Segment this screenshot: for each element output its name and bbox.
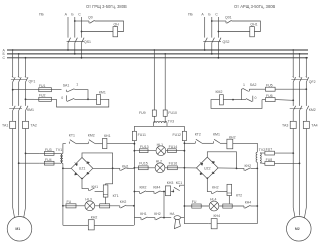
wire: right line C KM2 to TA4 bbox=[305, 111, 307, 122]
wire KH2 row to TV2 secondary bbox=[233, 143, 257, 152]
svg-text:Q0: Q0 bbox=[88, 15, 93, 19]
node bus A middle drop bbox=[153, 49, 155, 51]
right control row 1 wire bbox=[275, 88, 306, 90]
wire KH3 to contact KC1 bbox=[171, 191, 174, 193]
row A wire bbox=[134, 191, 139, 193]
node right line A to bus A bbox=[204, 49, 206, 51]
svg-text:КН2: КН2 bbox=[229, 135, 236, 139]
svg-text:ТV3: ТV3 bbox=[168, 119, 174, 123]
node on right line B for Q01 branch bbox=[211, 20, 213, 22]
wire: right line C TA4 down to motor bbox=[305, 129, 307, 218]
svg-text:От ГРЩ 3-50Гц, 380В: От ГРЩ 3-50Гц, 380В bbox=[86, 4, 127, 9]
svg-text:С: С bbox=[215, 13, 218, 17]
node right line C to bus C bbox=[218, 57, 220, 59]
wire FU9 down bbox=[153, 116, 155, 123]
svg-text:А: А bbox=[65, 13, 68, 17]
svg-text:КН2: КН2 bbox=[91, 216, 98, 220]
wire: line B QF1 to KM1 bbox=[18, 82, 20, 106]
svg-text:КМ1: КМ1 bbox=[99, 90, 106, 94]
wire KT2 bottom drop bbox=[228, 196, 230, 204]
svg-text:SA1: SA1 bbox=[63, 84, 70, 88]
svg-text:КН3: КН3 bbox=[167, 181, 174, 185]
svg-text:FU13: FU13 bbox=[140, 145, 149, 149]
node rail left row A bbox=[134, 191, 136, 193]
svg-text:FU2: FU2 bbox=[39, 93, 46, 97]
wire KM1 coil return loop bbox=[57, 99, 109, 107]
svg-text:ТА2: ТА2 bbox=[31, 124, 37, 128]
right rail bbox=[183, 141, 185, 224]
wire SA1 lower to junction bbox=[74, 98, 96, 100]
svg-text:КН1: КН1 bbox=[140, 212, 147, 216]
fuse FU18 bbox=[95, 205, 120, 207]
node HL4 row left bbox=[184, 205, 186, 207]
svg-text:UZ1: UZ1 bbox=[79, 167, 86, 171]
svg-text:ТV2: ТV2 bbox=[259, 148, 265, 152]
svg-text:ТА1: ТА1 bbox=[2, 124, 8, 128]
svg-text:FU14: FU14 bbox=[169, 145, 178, 149]
node control junction bbox=[87, 98, 89, 100]
wire FU10 down bbox=[164, 116, 166, 123]
wire QH return to line C bbox=[82, 31, 114, 33]
wire TV2 primary bottom to FU8 bbox=[260, 162, 265, 165]
wire middle drop A bbox=[153, 50, 155, 110]
node right line B to bus B bbox=[211, 53, 213, 55]
motor M2 bbox=[287, 217, 312, 242]
svg-text:1: 1 bbox=[76, 83, 78, 87]
control row 2: wire line C to FU2 bbox=[26, 98, 35, 100]
wire bottom return left ladder bbox=[63, 224, 86, 226]
svg-text:НА: НА bbox=[170, 212, 176, 216]
svg-text:ПБ: ПБ bbox=[39, 13, 45, 17]
diode VD5 bbox=[200, 162, 203, 166]
wire TV2 secondary down rail bbox=[256, 162, 258, 224]
wire: line A KM1 to TA1 bbox=[12, 111, 14, 122]
diode VD6 bbox=[212, 161, 215, 163]
wire: feed line C right bbox=[217, 17, 219, 38]
wire bridge top corner link bbox=[82, 153, 113, 168]
svg-text:ПБ: ПБ bbox=[188, 13, 194, 17]
diode VD3 bbox=[75, 173, 78, 176]
wire SA1 to junction drop bbox=[74, 90, 88, 100]
wire: line C KM1 to TA2 bbox=[25, 111, 27, 122]
wire: feed line A right bbox=[204, 17, 206, 38]
svg-text:QS2: QS2 bbox=[223, 40, 230, 44]
svg-text:Б: Б bbox=[71, 13, 74, 17]
wire bridge2 top corner link bbox=[207, 152, 236, 169]
node bus C right drop bbox=[305, 57, 307, 59]
diode VD7 bbox=[200, 172, 203, 175]
svg-text:А: А bbox=[201, 13, 204, 17]
wire from Q01 to relay QH1 bbox=[232, 21, 261, 32]
svg-text:КН1: КН1 bbox=[92, 185, 99, 189]
svg-text:КМ2: КМ2 bbox=[88, 134, 95, 138]
node row B junction bbox=[163, 217, 165, 219]
wire: feed line B left bbox=[74, 17, 76, 38]
QS1 tie bar bbox=[67, 40, 85, 42]
node bus A left drop bbox=[12, 49, 14, 51]
bus bar B bbox=[7, 53, 308, 55]
fuse FU20 bbox=[219, 205, 244, 207]
svg-text:КМ4: КМ4 bbox=[153, 186, 160, 190]
bus bar A bbox=[7, 49, 308, 51]
diode VD8 bbox=[212, 172, 215, 174]
node line B tap FU4 bbox=[18, 162, 20, 164]
wire to bridge UZ1 left corner bbox=[63, 167, 71, 169]
svg-text:0: 0 bbox=[255, 96, 257, 100]
motor M1 bbox=[7, 217, 32, 242]
wire row A drop column bbox=[163, 192, 165, 218]
svg-text:КС1: КС1 bbox=[176, 181, 183, 185]
svg-text:КН2: КН2 bbox=[245, 164, 252, 168]
svg-text:QН1: QН1 bbox=[250, 23, 257, 27]
svg-text:КТ1: КТ1 bbox=[69, 134, 75, 138]
wire from Q0 to relay QH bbox=[95, 21, 124, 32]
svg-text:КМ2: КМ2 bbox=[216, 90, 223, 94]
wire middle drop B bbox=[164, 54, 166, 110]
svg-text:SA2: SA2 bbox=[250, 83, 257, 87]
wire junction to KM2 coil bbox=[223, 99, 233, 101]
wire to switch Q01 bbox=[212, 20, 226, 22]
node bus B right drop bbox=[299, 53, 301, 55]
svg-text:QS1: QS1 bbox=[84, 40, 91, 44]
svg-text:FU10: FU10 bbox=[168, 111, 177, 115]
svg-text:М1: М1 bbox=[15, 227, 20, 231]
svg-text:0: 0 bbox=[61, 96, 63, 100]
QS2 tie bar bbox=[203, 40, 221, 42]
diode VD2 bbox=[86, 162, 89, 164]
node on right line C for QH1 return bbox=[218, 31, 220, 33]
svg-text:КМ2: КМ2 bbox=[140, 186, 147, 190]
svg-text:FU5: FU5 bbox=[266, 83, 273, 87]
svg-text:КН2: КН2 bbox=[212, 186, 219, 190]
wire bridge bottom corner down bbox=[82, 179, 89, 189]
svg-text:FU9: FU9 bbox=[139, 111, 146, 115]
wire KH4 to TV2 rail bottom bbox=[217, 223, 257, 225]
node junction column bbox=[112, 167, 114, 169]
svg-text:QН: QН bbox=[114, 23, 120, 27]
wire rail to bridge UZ2 bbox=[184, 167, 196, 169]
node row A junction bbox=[163, 191, 165, 193]
svg-text:КН1: КН1 bbox=[104, 134, 111, 138]
wire: feed line B right bbox=[211, 17, 213, 38]
svg-text:КН4: КН4 bbox=[245, 200, 252, 204]
wire: line C QF1 to KM1 bbox=[25, 82, 27, 106]
wire KH2 to left rail bottom bbox=[94, 224, 134, 226]
transformer TV1 secondary winding bbox=[62, 153, 63, 163]
wire: line A QF1 to KM1 bbox=[12, 82, 14, 106]
svg-text:FU: FU bbox=[67, 200, 72, 204]
svg-text:Q01: Q01 bbox=[225, 15, 232, 19]
node control tap right line A bbox=[292, 99, 294, 101]
node HL3 row left bbox=[62, 205, 64, 207]
svg-text:FU15: FU15 bbox=[139, 161, 148, 165]
svg-text:ТА3: ТА3 bbox=[282, 124, 288, 128]
svg-text:FU: FU bbox=[192, 200, 197, 204]
svg-text:КТ2: КТ2 bbox=[195, 133, 201, 137]
node rail left row KH1 bbox=[134, 143, 136, 145]
svg-text:М2: М2 bbox=[295, 227, 300, 231]
svg-text:КН4: КН4 bbox=[214, 214, 221, 218]
right rail upper bbox=[183, 126, 185, 131]
wire: line B down to motor zone bbox=[18, 111, 20, 216]
node control tap on line A bbox=[12, 89, 14, 91]
svg-text:FU1: FU1 bbox=[39, 84, 46, 88]
svg-text:QF2: QF2 bbox=[309, 80, 316, 84]
node rail left HL1 bbox=[134, 150, 136, 152]
svg-text:1: 1 bbox=[243, 83, 245, 87]
wire to switch Q0 bbox=[75, 20, 89, 22]
svg-text:ТА4: ТА4 bbox=[311, 124, 317, 128]
diode VD4 bbox=[86, 172, 89, 174]
node bus C left drop bbox=[25, 57, 27, 59]
wire SA2 to junction drop bbox=[241, 89, 244, 99]
wire: right line A TA3 down to motor bbox=[293, 129, 295, 218]
wire: line A TA1 down to motor bbox=[13, 129, 15, 218]
node right line B tap FU8 bbox=[299, 163, 301, 165]
svg-text:HL1: HL1 bbox=[157, 143, 163, 147]
node junction column right bbox=[236, 168, 238, 170]
wire: feed line A left bbox=[67, 17, 69, 38]
node on line C for QH return bbox=[81, 31, 83, 33]
node right control junction bbox=[232, 99, 234, 101]
node control tap right line C bbox=[305, 88, 307, 90]
node rail right HL1 bbox=[184, 150, 186, 152]
node HL4 row right bbox=[256, 205, 258, 207]
wire: right line A QF2 to KM2 bbox=[292, 82, 294, 106]
wire: right power line A down bbox=[292, 50, 294, 77]
wire: feed line C left bbox=[81, 17, 83, 38]
wire ladder top bar bbox=[134, 125, 184, 127]
node bus B left drop bbox=[18, 53, 20, 55]
svg-text:QF1: QF1 bbox=[29, 80, 36, 84]
wire: right line B QF2 to KM2 bbox=[299, 82, 301, 106]
svg-text:КМ1: КМ1 bbox=[213, 133, 220, 137]
node right line A tap FU7 bbox=[292, 152, 294, 154]
svg-text:Б: Б bbox=[208, 13, 211, 17]
svg-text:КТ1: КТ1 bbox=[113, 194, 119, 198]
HL1 row left wire bbox=[134, 150, 156, 152]
wire: right line C QF2 to KM2 bbox=[305, 82, 307, 106]
wire: line C TA2 down to motor bbox=[24, 129, 26, 218]
control row 1: wire from line A to FU1 bbox=[13, 89, 34, 91]
wire bottom return right ladder bbox=[184, 223, 208, 225]
svg-text:КМ1: КМ1 bbox=[27, 108, 34, 112]
wire: left power line C down bbox=[25, 58, 27, 78]
row B wire from left rail bbox=[134, 217, 141, 219]
HL2 row left wire bbox=[134, 167, 136, 169]
node TV1 secondary to bridge bbox=[62, 167, 64, 169]
node on line B for Q0 branch bbox=[74, 20, 76, 22]
svg-text:КТ2: КТ2 bbox=[236, 193, 242, 197]
svg-text:КМ2: КМ2 bbox=[309, 108, 316, 112]
wire KT1 bottom drop bbox=[105, 197, 107, 204]
diode VD1 bbox=[75, 162, 78, 166]
svg-text:С: С bbox=[78, 13, 81, 17]
transformer TV2 primary winding bbox=[260, 153, 261, 163]
wire TV2 primary top to FU7 bbox=[260, 152, 265, 154]
node line B to bus B bbox=[74, 53, 76, 55]
wire: right line A KM2 to TA3 bbox=[292, 111, 294, 122]
wire: left power line A down bbox=[12, 50, 14, 77]
wire TV1 secondary top to contact row bbox=[63, 144, 66, 154]
wire bell to right rail bbox=[181, 217, 185, 219]
wire: right power line C down bbox=[305, 58, 307, 78]
svg-text:От АРЩ 3-50Гц, 380В: От АРЩ 3-50Гц, 380В bbox=[234, 4, 275, 9]
wire: right power line B down bbox=[299, 54, 301, 77]
svg-text:КН2: КН2 bbox=[154, 212, 161, 216]
wire: left power line B down bbox=[18, 54, 20, 77]
svg-text:FU12: FU12 bbox=[172, 133, 181, 137]
wire TV1 secondary bottom rail bbox=[62, 163, 64, 225]
node line C tap FU3 bbox=[25, 153, 27, 155]
node rail right HL2/bridge2 bbox=[184, 167, 186, 169]
node bus B middle drop bbox=[164, 53, 166, 55]
svg-text:FU16: FU16 bbox=[169, 161, 178, 165]
node control tap on line C bbox=[25, 98, 27, 100]
wire line B to FU4 bbox=[19, 162, 40, 164]
bus bar C bbox=[7, 57, 308, 59]
wire bridge2 right corner bbox=[218, 167, 236, 169]
right contact row: rail to KT2 bbox=[184, 142, 186, 144]
svg-text:FU11: FU11 bbox=[138, 133, 146, 137]
wire KH1 to left rail bbox=[107, 143, 134, 145]
svg-text:КН2: КН2 bbox=[120, 200, 127, 204]
svg-text:С: С bbox=[3, 56, 6, 60]
wire junction column down to KT1 coil bbox=[106, 168, 113, 185]
left rail bbox=[133, 141, 135, 226]
svg-text:ТV1: ТV1 bbox=[56, 148, 62, 152]
wire QH1 return to line C bbox=[218, 31, 249, 33]
wire line C to FU3 bbox=[26, 152, 40, 154]
right control row 2 wire bbox=[275, 99, 293, 102]
node line A to bus A bbox=[67, 49, 69, 51]
node bus A right drop bbox=[292, 49, 294, 51]
wire bridge2 bottom corner down bbox=[207, 179, 211, 192]
left rail upper bbox=[133, 126, 135, 131]
node line C to bus C bbox=[81, 57, 83, 59]
wire: right line B down to motor M2 bbox=[299, 111, 301, 216]
wire KM2 coil return loop bbox=[211, 100, 262, 109]
node TV2 rail bridge wire bbox=[256, 168, 258, 170]
svg-text:UZ2: UZ2 bbox=[204, 166, 211, 170]
wire bridge right corner to junction bbox=[93, 167, 113, 169]
